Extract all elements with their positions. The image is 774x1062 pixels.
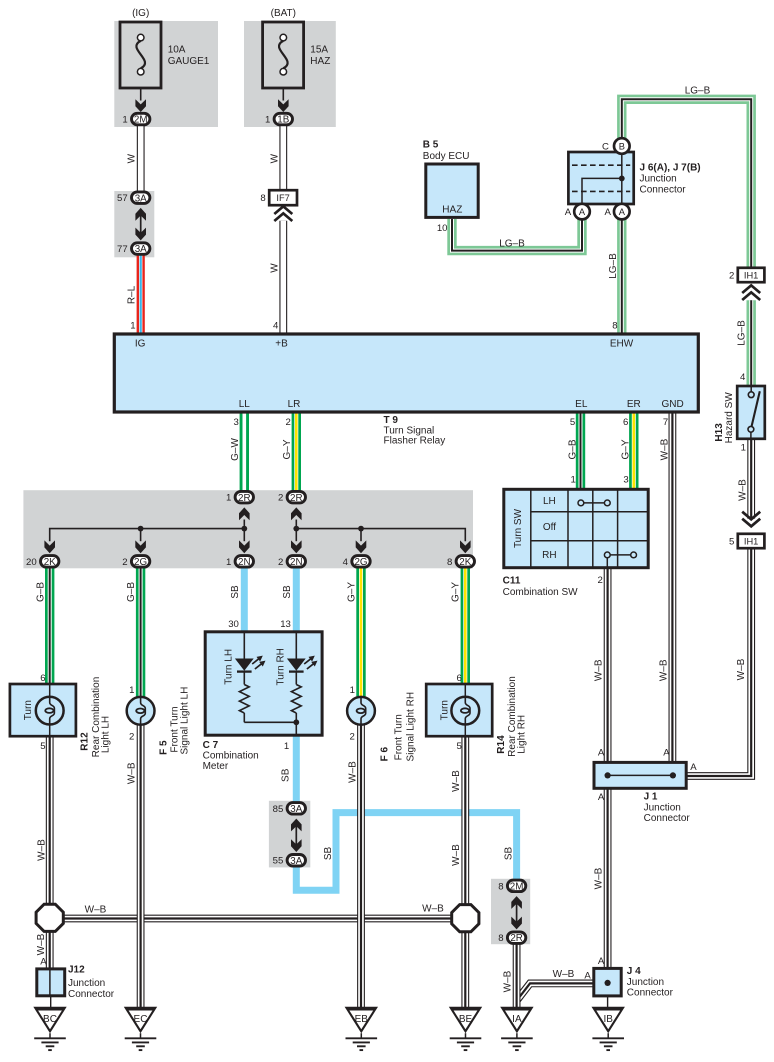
label LG-B B5 wire	[499, 239, 525, 250]
page link chevrons to IH1-5	[742, 512, 760, 527]
label T9 relay name	[384, 415, 446, 447]
wire W-B 2R to ground IA	[513, 943, 521, 1008]
svg-text:RH: RH	[542, 550, 556, 561]
resistor LED LH	[239, 672, 249, 723]
label C7 Combination Meter	[203, 740, 259, 772]
svg-text:ER: ER	[627, 399, 641, 410]
svg-text:EL: EL	[575, 399, 588, 410]
svg-text:8: 8	[447, 557, 452, 568]
label J6 J7 junction connector	[640, 163, 701, 196]
svg-text:5: 5	[570, 417, 575, 428]
svg-text:Signal Light RH: Signal Light RH	[405, 692, 416, 761]
svg-text:2K: 2K	[44, 557, 56, 568]
label W-B J12 wire	[36, 933, 47, 955]
svg-text:Connector: Connector	[640, 184, 687, 195]
wire J4 to ground IB	[607, 996, 609, 1008]
svg-text:A: A	[598, 792, 605, 803]
pin A J4 left	[584, 970, 591, 981]
svg-text:G–Y: G–Y	[282, 439, 293, 459]
label LG-B top loop	[685, 85, 711, 96]
meter C7 Combination Meter body	[205, 632, 322, 735]
svg-text:W–B: W–B	[736, 658, 747, 680]
svg-text:(BAT): (BAT)	[271, 8, 296, 19]
label W-B R14 down 1	[451, 770, 462, 792]
connector 2K pin8	[447, 556, 475, 568]
connector 2N pin2	[278, 556, 306, 568]
svg-text:SB: SB	[282, 585, 293, 599]
svg-text:1B: 1B	[277, 115, 289, 126]
label F 5	[159, 740, 170, 755]
wire G-B 2G-2 to F5	[136, 568, 145, 697]
svg-text:C 7: C 7	[203, 740, 219, 751]
label Turn R14	[439, 700, 450, 720]
junction connector J6 pin A right	[604, 204, 629, 220]
pin 1 C11	[571, 475, 576, 486]
svg-text:1: 1	[350, 685, 355, 696]
wire W-B IH1-5 to J1 A	[686, 548, 751, 776]
svg-text:3A: 3A	[135, 193, 147, 204]
pin 5 R12	[40, 741, 45, 752]
ground EC	[124, 1007, 157, 1050]
lamp F6 Front Turn Signal Light RH	[347, 697, 375, 725]
junction connector J6 pin A left	[565, 204, 590, 220]
svg-text:GND: GND	[661, 399, 683, 410]
svg-text:10A: 10A	[168, 45, 186, 56]
svg-text:Turn LH: Turn LH	[224, 649, 235, 685]
wire SB C7 pin30 from connector 2N	[241, 568, 248, 632]
pin 30 C7	[228, 619, 239, 630]
ground EB	[345, 1007, 378, 1050]
svg-text:BC: BC	[43, 1014, 57, 1025]
label F 6	[380, 747, 391, 762]
svg-text:1: 1	[284, 741, 289, 752]
label R12	[80, 732, 91, 751]
label Turn LH indicator	[224, 649, 235, 685]
svg-text:1: 1	[741, 442, 746, 453]
svg-text:Light LH: Light LH	[101, 716, 112, 753]
svg-text:57: 57	[117, 193, 128, 204]
label W-B splice right	[422, 904, 444, 915]
pin 1 F6	[350, 685, 355, 696]
svg-text:Turn SW: Turn SW	[513, 508, 524, 548]
wire W-B splice to J12	[46, 932, 54, 969]
svg-text:J 4: J 4	[627, 966, 641, 977]
node RH distribution line	[293, 520, 465, 542]
svg-text:2: 2	[598, 575, 603, 586]
svg-text:G–Y: G–Y	[620, 439, 631, 459]
svg-text:6: 6	[457, 673, 462, 684]
wire SB loop 3A-55 to connector 2M	[296, 813, 516, 891]
connector pair arrows 2M-2R	[511, 896, 522, 929]
label G-B wire to F5	[126, 582, 137, 602]
junction connector J6(A) J7(B)	[568, 152, 633, 204]
pin 3 C11	[623, 475, 628, 486]
label H13	[714, 423, 725, 442]
label Light RH	[517, 715, 528, 754]
label W-B wire GND	[659, 438, 670, 460]
svg-text:2N: 2N	[290, 557, 303, 568]
svg-text:Junction: Junction	[640, 174, 677, 185]
svg-text:G–W: G–W	[230, 438, 241, 461]
wire G-Y 2K-8 to R14	[461, 568, 470, 684]
svg-text:T 9: T 9	[384, 415, 399, 426]
pin 6 T9 ER	[623, 417, 628, 428]
svg-text:B 5: B 5	[423, 140, 439, 151]
wire W fuse HAZ to IF7	[279, 126, 287, 191]
connector 3A pin77	[117, 243, 150, 255]
svg-text:1: 1	[226, 557, 231, 568]
svg-text:2G: 2G	[354, 557, 367, 568]
pin A J1 bottom	[598, 792, 605, 803]
svg-text:A: A	[584, 970, 591, 981]
page link chevrons IF7	[274, 206, 292, 221]
fuse 10A GAUGE1 (IG) output connector	[122, 113, 150, 125]
harness shading fuse HAZ	[244, 21, 336, 127]
svg-text:6: 6	[40, 673, 45, 684]
label W-B IH1-5 wire	[736, 658, 747, 680]
svg-text:Connector: Connector	[644, 813, 691, 824]
connector 2N pin1	[226, 556, 254, 568]
pin 8 T9 EHW	[612, 321, 617, 332]
svg-text:2M: 2M	[134, 115, 148, 126]
pin 1 C7	[284, 741, 289, 752]
wire LG-B J6 A to T9 EHW	[617, 219, 626, 334]
pin A J1 right	[690, 762, 697, 773]
svg-text:F 6: F 6	[380, 747, 391, 762]
arrow into 2N-2	[291, 540, 302, 553]
label LG-B hazard wire	[736, 320, 747, 346]
svg-text:2: 2	[278, 557, 283, 568]
svg-text:C: C	[602, 142, 609, 153]
svg-text:A: A	[598, 748, 605, 759]
pin 6 R12	[40, 673, 45, 684]
LED Turn LH	[235, 632, 266, 672]
label W battery wire lower	[270, 263, 281, 273]
svg-text:1: 1	[130, 321, 135, 332]
svg-text:2N: 2N	[238, 557, 251, 568]
label G-Y wire ER	[620, 439, 631, 459]
connector pair arrows 3A	[135, 208, 146, 241]
wire W-B R14 to splice	[461, 736, 469, 904]
ECU B5 Body ECU	[423, 140, 478, 218]
pin A J12	[40, 957, 47, 968]
svg-text:5: 5	[457, 741, 462, 752]
fuse 10A GAUGE1 (IG)	[120, 8, 210, 112]
svg-text:R14: R14	[496, 735, 507, 754]
svg-text:5: 5	[729, 537, 734, 548]
switch H13 Hazard SW	[737, 386, 765, 439]
svg-text:(IG): (IG)	[132, 8, 149, 19]
svg-text:LG–B: LG–B	[685, 85, 711, 96]
svg-text:Light RH: Light RH	[517, 715, 528, 754]
svg-text:GAUGE1: GAUGE1	[168, 56, 210, 67]
harness shading connector 2M-2R	[491, 879, 530, 944]
svg-text:30: 30	[228, 619, 239, 630]
svg-text:F 5: F 5	[159, 740, 170, 755]
label Rear Combination RH	[507, 676, 518, 757]
page link chevrons IH1-2	[742, 285, 760, 300]
label W-B F5 down	[127, 762, 138, 784]
wire LG-B IH1-2 to H13 pin4	[747, 300, 756, 386]
svg-text:4: 4	[740, 372, 746, 383]
pin 2 T9 LR	[286, 417, 291, 428]
connector 3A pin57	[117, 192, 150, 204]
splice octagon right	[452, 905, 479, 932]
node C7 common	[244, 719, 299, 735]
label LG-B EHW wire	[608, 253, 619, 279]
svg-text:W–B: W–B	[36, 933, 47, 955]
label Hazard SW	[724, 392, 735, 444]
svg-text:A: A	[604, 207, 611, 218]
connector 2R pin1	[226, 491, 254, 503]
svg-text:3: 3	[234, 417, 239, 428]
label C11 Combination SW	[503, 576, 579, 598]
svg-text:8: 8	[612, 321, 617, 332]
svg-text:Flasher Relay: Flasher Relay	[384, 435, 446, 446]
connector 2R pin2	[278, 491, 306, 503]
label Light LH	[101, 716, 112, 753]
ground BC	[33, 1007, 66, 1050]
ground IA	[500, 1007, 533, 1050]
pin 2 F5	[129, 731, 134, 742]
svg-text:SB: SB	[280, 768, 291, 782]
svg-text:A: A	[40, 957, 47, 968]
svg-text:4: 4	[273, 321, 279, 332]
junction connector J1	[594, 762, 686, 788]
pin 3 T9 LL	[234, 417, 239, 428]
svg-text:2: 2	[349, 731, 354, 742]
svg-text:+B: +B	[275, 339, 288, 350]
pin 5 T9 EL	[570, 417, 575, 428]
svg-text:7: 7	[663, 417, 668, 428]
svg-text:2R: 2R	[238, 493, 251, 504]
svg-text:Junction: Junction	[68, 978, 105, 989]
svg-text:LG–B: LG–B	[736, 320, 747, 346]
pin A J1 left top	[598, 748, 605, 759]
label Signal Light RH	[405, 692, 416, 761]
arrow into 2N-1	[239, 540, 250, 553]
svg-text:2M: 2M	[510, 882, 524, 893]
label SB wire to C7-30	[230, 585, 241, 599]
label W battery wire	[270, 153, 281, 163]
svg-text:LR: LR	[288, 399, 301, 410]
svg-text:Body ECU: Body ECU	[423, 151, 470, 162]
svg-text:Junction: Junction	[627, 977, 664, 988]
svg-text:2: 2	[729, 271, 734, 282]
svg-text:8: 8	[260, 193, 265, 204]
pin 7 T9 GND	[663, 417, 668, 428]
switch C11 Combination SW body	[504, 489, 648, 567]
svg-text:W: W	[270, 263, 281, 273]
pin 1 T9 IG	[130, 321, 135, 332]
label Turn SW	[513, 508, 524, 548]
svg-text:BE: BE	[459, 1014, 473, 1025]
svg-text:LH: LH	[543, 496, 556, 507]
svg-text:IH1: IH1	[744, 536, 758, 546]
svg-text:IF7: IF7	[276, 193, 289, 203]
wire LG-B B5 pin10 to J6 A	[452, 219, 582, 251]
svg-text:R–L: R–L	[127, 285, 138, 304]
svg-text:W–B: W–B	[451, 770, 462, 792]
switch C11 LH contacts	[578, 500, 610, 506]
svg-text:2R: 2R	[510, 933, 523, 944]
svg-text:HAZ: HAZ	[310, 56, 330, 67]
label SB wire C7 out	[280, 768, 291, 782]
svg-text:IA: IA	[512, 1014, 522, 1025]
svg-text:W–B: W–B	[347, 761, 358, 783]
label W-B J4 branch	[553, 969, 575, 980]
wire W-B splice to ground BE	[461, 933, 469, 1008]
arrow into 2R-2	[291, 507, 302, 520]
label G-Y wire to R14	[451, 582, 462, 602]
svg-text:3: 3	[623, 475, 628, 486]
harness shading junction block band	[23, 490, 473, 568]
svg-text:IB: IB	[603, 1014, 613, 1025]
label W-B R14 down 2	[451, 844, 462, 866]
connector 3A pin55	[273, 855, 306, 867]
svg-text:LL: LL	[239, 399, 251, 410]
LED Turn RH	[287, 632, 318, 672]
pin A J4 top	[598, 956, 605, 967]
svg-text:G–Y: G–Y	[346, 582, 357, 602]
svg-text:2R: 2R	[290, 493, 303, 504]
wire G-B T9 EL to C11 pin1	[576, 412, 585, 489]
label SB loop left	[323, 847, 334, 861]
svg-text:Off: Off	[543, 522, 556, 533]
label W ignition wire	[127, 153, 138, 163]
wire W-B T9 GND to J1 A	[669, 412, 677, 762]
junction connector J6 pin B	[602, 138, 630, 154]
label G-Y wire to F6	[346, 582, 357, 602]
label G-B wire EL	[567, 439, 578, 459]
svg-text:3A: 3A	[290, 804, 302, 815]
svg-text:B: B	[619, 141, 625, 151]
svg-text:C11: C11	[503, 576, 521, 587]
wire W-B H13 pin1 to chevrons	[747, 439, 755, 519]
arrow into 2K-8	[460, 540, 471, 553]
svg-text:SB: SB	[230, 585, 241, 599]
svg-text:W: W	[270, 153, 281, 163]
svg-text:1: 1	[265, 115, 270, 126]
connector 2G pin2	[122, 556, 150, 568]
svg-text:J 1: J 1	[644, 792, 658, 803]
ground IB	[592, 1007, 625, 1050]
svg-text:Connector: Connector	[627, 988, 674, 999]
svg-text:1: 1	[122, 115, 127, 126]
label R14	[496, 735, 507, 754]
wire G-B 2K-20 to R12	[45, 568, 54, 684]
svg-text:Hazard SW: Hazard SW	[724, 392, 735, 444]
label Rear Combination LH	[91, 677, 102, 758]
wire W fuse GAUGE1 to 3A-57	[137, 126, 145, 192]
pin A J1 gnd top	[663, 748, 670, 759]
label W-B GND wire lower	[659, 659, 670, 681]
svg-text:IG: IG	[135, 339, 146, 350]
label J1 Junction Connector	[644, 792, 691, 825]
svg-text:A: A	[663, 748, 670, 759]
label Turn R12	[23, 700, 34, 720]
svg-text:3A: 3A	[135, 244, 147, 255]
svg-text:SB: SB	[323, 847, 334, 861]
label W-B R12 down	[36, 839, 47, 861]
svg-text:W–B: W–B	[422, 904, 444, 915]
svg-text:W–B: W–B	[593, 867, 604, 889]
connector IH1 pin2	[729, 268, 764, 282]
svg-text:55: 55	[273, 856, 284, 867]
ground BE	[449, 1007, 482, 1050]
svg-text:EB: EB	[355, 1014, 369, 1025]
svg-text:G–B: G–B	[126, 582, 137, 602]
wire W-B splice horizontal	[64, 915, 452, 923]
svg-text:13: 13	[280, 619, 291, 630]
svg-text:Junction: Junction	[644, 803, 681, 814]
pin 4 H13	[740, 372, 746, 383]
wire SB C7 pin13 from connector 2N	[293, 568, 300, 632]
lamp R12 Rear Combination Light LH	[10, 684, 76, 736]
arrow into 2K-20	[44, 540, 55, 553]
svg-text:W–B: W–B	[127, 762, 138, 784]
svg-text:J 6(A), J 7(B): J 6(A), J 7(B)	[640, 163, 701, 174]
label R-L wire	[127, 285, 138, 304]
svg-text:W–B: W–B	[553, 969, 575, 980]
connector 2M pin8	[498, 880, 526, 892]
svg-text:Turn RH: Turn RH	[276, 648, 287, 685]
svg-text:4: 4	[343, 557, 349, 568]
label W-B J1-J4 wire	[593, 867, 604, 889]
label J4 Junction Connector	[627, 966, 674, 999]
label W-B IA wire	[503, 970, 514, 992]
pin 10 B5 HAZ	[437, 223, 448, 234]
label G-Y wire LR	[282, 439, 293, 459]
wire W-B F5 to ground EC	[137, 725, 145, 1008]
harness shading connector 3A top	[114, 191, 154, 257]
svg-text:3A: 3A	[290, 856, 302, 867]
connector pair arrows 3A mid	[291, 819, 302, 852]
wire W-B J1 to J4	[604, 788, 612, 968]
wire SB C7 pin1 to connector 3A-85	[293, 735, 300, 802]
svg-text:EC: EC	[134, 1014, 148, 1025]
pin 4 T9 +B	[273, 321, 279, 332]
svg-text:G–B: G–B	[567, 439, 578, 459]
label SB wire to C7-13	[282, 585, 293, 599]
svg-text:LG–B: LG–B	[499, 239, 525, 250]
wire G-W T9 LL to 2R	[240, 412, 249, 491]
pin 1 F5	[129, 685, 134, 696]
svg-text:R12: R12	[80, 732, 91, 751]
svg-text:Front Turn: Front Turn	[393, 714, 404, 760]
resistor LED RH	[291, 672, 301, 723]
svg-text:Combination SW: Combination SW	[503, 587, 579, 598]
svg-text:1: 1	[571, 475, 576, 486]
svg-text:A: A	[619, 207, 626, 217]
svg-text:2K: 2K	[459, 557, 471, 568]
svg-text:W–B: W–B	[659, 438, 670, 460]
splice octagon left	[36, 904, 63, 931]
svg-text:2: 2	[129, 731, 134, 742]
label Front Turn F5	[170, 706, 181, 752]
connector 3A pin85	[273, 803, 306, 815]
label W-B F6 down	[347, 761, 358, 783]
svg-text:1: 1	[226, 493, 231, 504]
svg-text:SB: SB	[504, 847, 515, 861]
svg-text:W: W	[127, 153, 138, 163]
svg-text:20: 20	[26, 557, 37, 568]
label Front Turn F6	[393, 714, 404, 760]
svg-text:8: 8	[498, 933, 503, 944]
label G-W wire LL	[230, 438, 241, 461]
svg-text:J12: J12	[68, 964, 85, 975]
connector IH1 pin5	[729, 534, 764, 548]
